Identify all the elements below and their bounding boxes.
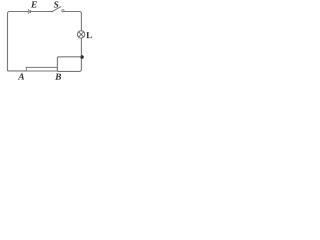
label A <box>18 73 24 79</box>
battery E long plate <box>27 9 29 14</box>
switch S contact circle <box>62 10 64 12</box>
wire lamp down right side to bottom-right corner and left <box>57 38 81 71</box>
label S <box>54 1 59 7</box>
wire left loop: top-left, left side, bottom-left <box>8 12 29 71</box>
label E <box>31 1 37 7</box>
branch wire from junction to riser at B <box>57 57 81 72</box>
switch S pivot <box>51 11 53 13</box>
lamp L circle <box>77 31 84 38</box>
label B <box>55 74 61 80</box>
wire battery to switch <box>31 11 52 13</box>
wire switch to top-right corner and down to lamp <box>64 12 81 31</box>
switch S blade <box>52 6 61 11</box>
resistor AB body <box>26 67 57 71</box>
battery E short plate <box>29 10 31 13</box>
lamp L cross <box>79 32 84 37</box>
junction node dot <box>80 55 84 59</box>
label L <box>86 32 92 38</box>
